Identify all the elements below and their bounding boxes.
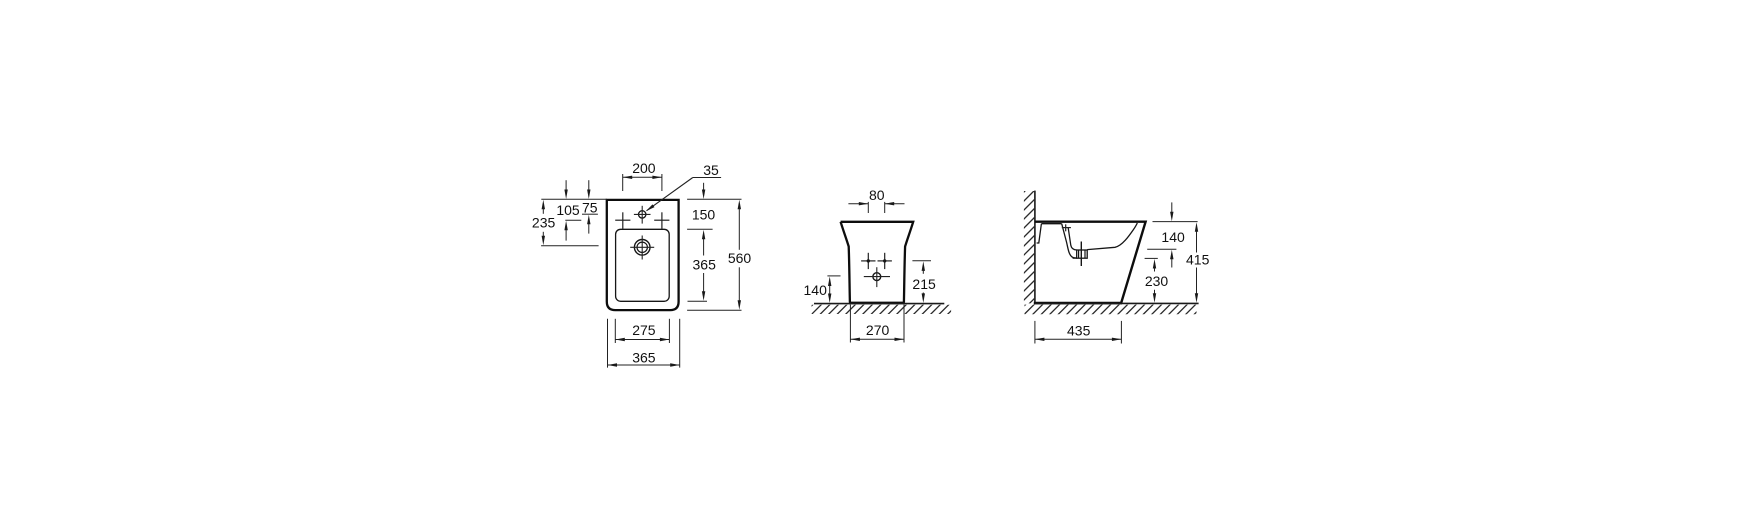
dimension 230 (side)	[1145, 258, 1169, 302]
side view: basin bottom profile	[1087, 223, 1137, 250]
plan view: drain hole with centerlines	[630, 236, 654, 260]
front view: bidet body outline	[841, 222, 914, 303]
side view: basin front wall profile (inner)	[1068, 228, 1077, 250]
dimension 105 (plan left)	[556, 180, 581, 240]
plan view: right fixing hole cross	[654, 212, 669, 229]
plan right: extension line at body bottom level	[687, 309, 741, 311]
svg-text:415: 415	[1186, 251, 1210, 267]
front view: floor line	[814, 303, 944, 305]
dimension 150 (plan right)	[692, 183, 716, 223]
svg-text:35: 35	[703, 162, 719, 178]
dimension 435 (side bottom)	[1035, 321, 1122, 344]
plan right: extension line at top edge level	[687, 198, 741, 200]
svg-text:200: 200	[632, 160, 656, 176]
svg-text:365: 365	[693, 257, 717, 273]
dimension 80 (front top)	[848, 187, 904, 213]
dimension 275 (plan bottom)	[615, 319, 669, 343]
side view: top extension line (rim level)	[1153, 221, 1198, 223]
svg-text:435: 435	[1067, 322, 1091, 338]
dimension 215 (front right)	[912, 261, 936, 303]
dimension 415 (side right)	[1186, 222, 1210, 303]
plan view: bidet outer body outline	[607, 200, 679, 310]
side view: wall line	[1034, 191, 1036, 304]
svg-text:235: 235	[532, 215, 556, 231]
side view: bidet body outline	[1034, 222, 1146, 303]
svg-text:560: 560	[728, 250, 752, 266]
dimension 365 (plan right)	[693, 230, 717, 301]
dimension 270 (front bottom)	[850, 305, 904, 343]
plan right: extension line at basin top level	[687, 228, 713, 230]
svg-text:275: 275	[632, 322, 656, 338]
side view: drain trap box	[1073, 250, 1088, 258]
dimension 200 (hole spacing, plan top)	[623, 160, 662, 191]
side view: inner rim ledge line	[1041, 223, 1061, 225]
dimension 140 (front left)	[804, 276, 841, 303]
svg-text:140: 140	[804, 282, 828, 298]
dimension 140 (side)	[1147, 202, 1185, 267]
side view: drain centerline	[1080, 242, 1082, 267]
plan right: extension line at basin bottom level	[688, 300, 708, 302]
svg-text:270: 270	[866, 322, 890, 338]
front view: floor hatching	[802, 300, 970, 315]
side view: back water channel profile	[1037, 224, 1042, 243]
side view: floor hatching	[1015, 300, 1218, 316]
svg-text:365: 365	[632, 349, 656, 365]
dimension 365 (plan bottom overall width)	[608, 319, 680, 368]
plan view: inner basin rim	[616, 229, 670, 301]
svg-text:80: 80	[869, 187, 885, 203]
side view: basin front wall profile (outer)	[1062, 224, 1077, 258]
front view: right fixing hole cross	[878, 253, 892, 269]
svg-text:230: 230	[1145, 273, 1169, 289]
svg-text:75: 75	[582, 200, 598, 216]
dimension 75 (plan left)	[582, 180, 598, 233]
svg-text:105: 105	[556, 202, 580, 218]
front view: left fixing hole cross	[861, 253, 875, 269]
dimension 235 (plan left)	[532, 200, 599, 246]
front view: drain hole with centerlines	[864, 267, 890, 287]
side view: floor line	[1035, 302, 1199, 304]
plan view: faucet hole with centerlines	[634, 206, 651, 224]
svg-text:215: 215	[912, 276, 936, 292]
label 35 (faucet hole diameter) with leader	[646, 162, 721, 212]
svg-text:150: 150	[692, 207, 716, 223]
dimension 560 (plan far right)	[728, 200, 752, 310]
svg-text:140: 140	[1161, 229, 1185, 245]
plan left: top reference line at rim level	[541, 198, 607, 200]
plan view: left fixing hole cross	[615, 212, 630, 229]
side view: wall hatching	[912, 186, 1264, 304]
side view: faucet cross	[1062, 224, 1071, 231]
